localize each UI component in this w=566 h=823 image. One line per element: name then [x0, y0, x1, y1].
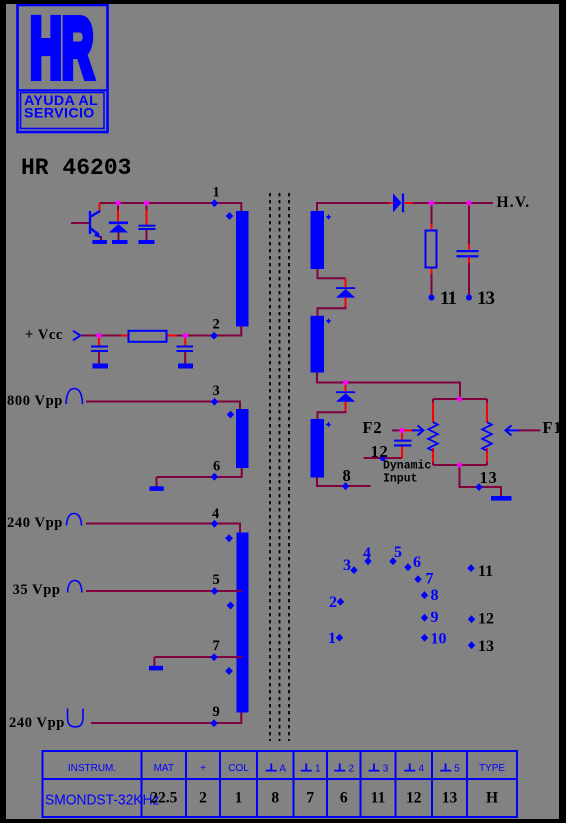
svg-text:1: 1: [315, 764, 321, 775]
svg-text:SERVICIO: SERVICIO: [24, 106, 95, 122]
svg-text:10: 10: [431, 631, 447, 648]
svg-text:MAT: MAT: [154, 763, 174, 774]
svg-text:13: 13: [477, 288, 495, 309]
svg-text:12: 12: [406, 790, 422, 807]
svg-text:INSTRUM.: INSTRUM.: [68, 763, 116, 774]
svg-text:8: 8: [431, 587, 439, 604]
svg-text:5: 5: [213, 572, 221, 588]
svg-text:1: 1: [235, 790, 243, 807]
svg-text:7: 7: [306, 790, 314, 807]
svg-text:2: 2: [348, 764, 354, 775]
svg-text:HR 46203: HR 46203: [21, 155, 131, 181]
svg-text:22.5: 22.5: [150, 790, 177, 807]
svg-text:11: 11: [371, 790, 386, 807]
svg-text:8: 8: [343, 466, 352, 485]
svg-text:A: A: [279, 764, 286, 775]
svg-text:4: 4: [212, 506, 220, 522]
svg-text:+ Vcc: + Vcc: [25, 327, 63, 343]
svg-text:COL: COL: [228, 763, 249, 774]
svg-text:6: 6: [340, 790, 348, 807]
svg-text:3: 3: [213, 383, 221, 399]
svg-text:11: 11: [440, 288, 456, 309]
svg-text:13: 13: [480, 468, 498, 487]
svg-text:2: 2: [329, 594, 337, 611]
svg-text:2: 2: [199, 790, 207, 807]
svg-text:H: H: [486, 790, 498, 807]
svg-text:9: 9: [431, 609, 439, 626]
svg-text:+: +: [200, 763, 206, 774]
svg-text:5: 5: [454, 764, 460, 775]
svg-text:800 Vpp: 800 Vpp: [7, 393, 63, 409]
svg-text:6: 6: [413, 554, 421, 571]
svg-text:12: 12: [478, 611, 494, 628]
svg-text:3: 3: [383, 764, 389, 775]
svg-text:12: 12: [371, 442, 389, 461]
svg-text:11: 11: [478, 563, 493, 580]
svg-text:1: 1: [213, 185, 221, 201]
svg-text:240 Vpp: 240 Vpp: [9, 715, 65, 731]
svg-text:1: 1: [328, 630, 336, 647]
svg-text:HR: HR: [30, 2, 94, 96]
svg-text:F2: F2: [363, 418, 383, 437]
svg-text:6: 6: [213, 459, 221, 475]
svg-text:13: 13: [442, 790, 458, 807]
svg-text:3: 3: [343, 557, 351, 574]
svg-text:7: 7: [426, 571, 434, 588]
svg-text:8: 8: [271, 790, 279, 807]
svg-text:5: 5: [394, 544, 402, 561]
svg-text:240 Vpp: 240 Vpp: [7, 515, 63, 531]
svg-text:Input: Input: [383, 473, 418, 486]
svg-text:9: 9: [213, 704, 221, 720]
svg-text:H.V.: H.V.: [497, 194, 531, 211]
svg-text:Dynamic: Dynamic: [383, 460, 431, 473]
svg-text:7: 7: [213, 638, 221, 654]
svg-text:4: 4: [418, 764, 424, 775]
svg-text:4: 4: [363, 545, 371, 562]
svg-text:13: 13: [478, 638, 494, 655]
svg-text:35 Vpp: 35 Vpp: [13, 582, 61, 598]
svg-text:SMONDST-32KHz: SMONDST-32KHz: [45, 792, 159, 809]
svg-text:2: 2: [213, 317, 221, 333]
svg-text:TYPE: TYPE: [479, 763, 505, 774]
